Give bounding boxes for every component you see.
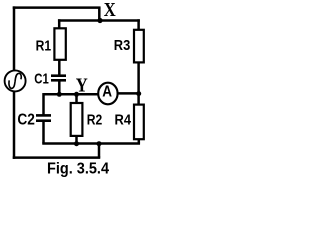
- wire: ammeter to right wire: [118, 92, 140, 95]
- ammeter A1: [98, 83, 117, 105]
- resistor R4: [134, 105, 144, 140]
- node X junction dot: [97, 18, 102, 23]
- wire: C1 bottom lead: [58, 81, 61, 94]
- wire: X step down: [98, 8, 101, 21]
- capacitor C1: [51, 76, 66, 81]
- svg-text:C1: C1: [34, 71, 49, 88]
- ac source V1: [5, 70, 26, 91]
- wire: R2 top lead: [75, 94, 78, 103]
- svg-text:R3: R3: [114, 37, 131, 54]
- wire: Y wire horizontal: [44, 93, 99, 96]
- wire: R4 bottom lead: [138, 139, 141, 143]
- svg-text:R1: R1: [36, 37, 52, 54]
- svg-text:Y: Y: [76, 74, 88, 96]
- wire: upper branch wire: [58, 19, 140, 22]
- wire: Y wire corner down to C2: [42, 93, 45, 115]
- wire: bottom wire: [13, 156, 101, 159]
- wire: left wire lower: [13, 91, 16, 159]
- wire: C2 bottom lead: [42, 121, 45, 143]
- wire: top wire: [13, 6, 101, 9]
- svg-text:Fig. 3.5.4: Fig. 3.5.4: [47, 161, 109, 178]
- junction dot R2 bottom: [74, 141, 79, 146]
- svg-text:C2: C2: [17, 111, 35, 128]
- wire: bottom connector up: [98, 144, 101, 158]
- svg-text:R4: R4: [115, 112, 132, 129]
- svg-text:X: X: [104, 0, 116, 21]
- junction dot ammeter/right wire: [136, 91, 141, 96]
- resistor R2: [71, 103, 83, 136]
- resistor R1: [54, 28, 65, 60]
- wire: R2 bottom lead: [75, 136, 78, 144]
- junction dot bottom connector: [97, 141, 102, 146]
- junction dot C1/Y wire: [57, 92, 62, 97]
- resistor R3: [134, 30, 144, 63]
- svg-text:R2: R2: [87, 112, 103, 129]
- junction dot R2 top: [74, 92, 79, 97]
- wire: right wire top corner down to R3: [137, 19, 140, 30]
- wire: R1 to C1 lead: [58, 60, 61, 75]
- wire: left wire upper: [13, 6, 16, 70]
- svg-text:A: A: [102, 83, 112, 100]
- wire: lower branch wire: [42, 142, 140, 145]
- capacitor C2: [36, 115, 51, 120]
- wire: right wire R3 to R4: [137, 62, 140, 104]
- wire: R1 top lead: [58, 19, 61, 28]
- sine symbol inside source: [9, 73, 21, 88]
